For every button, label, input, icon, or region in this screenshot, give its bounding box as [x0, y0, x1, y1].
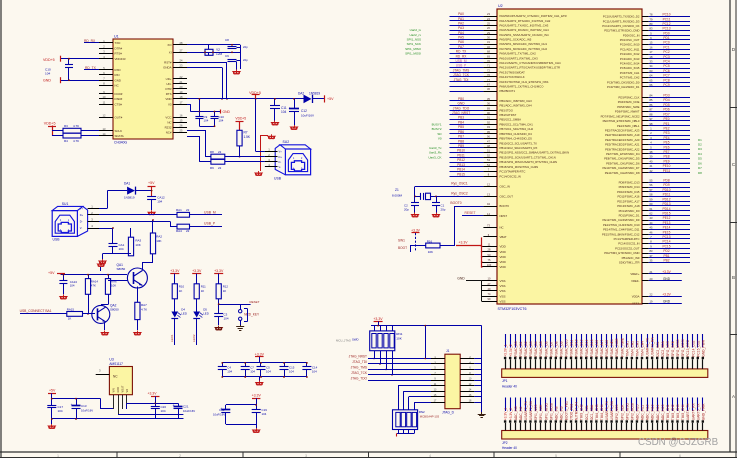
svg-text:PE2/TRACECK/FSMC_A23: PE2/TRACECK/FSMC_A23 — [605, 128, 640, 132]
svg-text:GND: GND — [663, 299, 671, 303]
svg-text:PE13/TIM1_CH3/FSMC_D10: PE13/TIM1_CH3/FSMC_D10 — [603, 223, 640, 227]
svg-text:PB7: PB7 — [458, 135, 464, 139]
svg-text:CH340G: CH340G — [114, 141, 128, 145]
svg-text:PB5/I2C1_SMBA: PB5/I2C1_SMBA — [500, 118, 522, 122]
svg-text:1N5819: 1N5819 — [309, 92, 320, 96]
svg-text:PB1/ADC_IN9/TIM3_CH4: PB1/ADC_IN9/TIM3_CH4 — [500, 104, 533, 108]
svg-text:1K: 1K — [68, 316, 72, 320]
svg-text:PE5: PE5 — [663, 141, 669, 145]
svg-text:USB_CONNECT BA1: USB_CONNECT BA1 — [20, 309, 52, 313]
svg-text:R7: R7 — [244, 131, 248, 135]
svg-text:PB3/JTDO: PB3/JTDO — [500, 108, 514, 112]
svg-text:+3.3V_2: +3.3V_2 — [509, 344, 513, 357]
svg-text:PC4: PC4 — [663, 60, 669, 64]
svg-text:PC9: PC9 — [663, 83, 669, 87]
svg-text:PA3: PA3 — [458, 26, 464, 30]
svg-text:RD_TX: RD_TX — [456, 50, 467, 54]
svg-text:PB14/SPI2_MISO/USART3_RTS/TIM1: PB14/SPI2_MISO/USART3_RTS/TIM1_CH2N — [500, 160, 558, 164]
svg-text:PB4/NJTRST: PB4/NJTRST — [500, 113, 517, 117]
svg-text:D7: D7 — [698, 166, 702, 170]
svg-text:FSMC_A17: FSMC_A17 — [600, 340, 604, 357]
svg-text:PE1: PE1 — [663, 122, 669, 126]
svg-text:NC: NC — [167, 121, 171, 125]
svg-text:DTR: DTR — [166, 87, 172, 91]
svg-text:PC1/ADC_IN11: PC1/ADC_IN11 — [620, 47, 640, 51]
svg-text:PC8/TIM3_CH3/SDIO_D0: PC8/TIM3_CH3/SDIO_D0 — [607, 80, 640, 84]
svg-text:SPI1_SCK: SPI1_SCK — [539, 404, 543, 421]
svg-text:USART3_RX: USART3_RX — [651, 337, 655, 357]
svg-text:PA15/JTDI/TIM2_CH1_ETR/SPI1_NS: PA15/JTDI/TIM2_CH1_ETR/SPI1_NSS — [500, 80, 549, 84]
svg-text:VDD: VDD — [500, 250, 507, 254]
svg-text:PD1/OSC_OUT: PD1/OSC_OUT — [620, 38, 640, 42]
svg-text:VOUT: VOUT — [122, 385, 125, 392]
svg-text:TIM3_CH2: TIM3_CH2 — [671, 404, 675, 420]
svg-text:SPI2_NSS: SPI2_NSS — [615, 404, 619, 421]
svg-text:SPI2_SCK: SPI2_SCK — [620, 404, 624, 421]
svg-text:100: 100 — [487, 263, 492, 267]
svg-text:VSS: VSS — [500, 284, 506, 288]
svg-text:R16: R16 — [427, 239, 433, 243]
svg-text:PC13_RTC: PC13_RTC — [686, 339, 690, 356]
svg-text:LED2: LED2 — [192, 334, 196, 342]
svg-text:PE9/TIM1_CH1/FSMC_D6: PE9/TIM1_CH1/FSMC_D6 — [606, 161, 640, 165]
svg-text:PE0/TIM4_ETR/FSMC_NBL0: PE0/TIM4_ETR/FSMC_NBL0 — [603, 119, 640, 123]
svg-text:SU1: SU1 — [62, 202, 69, 206]
svg-text:Uart3_Rx: Uart3_Rx — [429, 151, 442, 155]
svg-text:PB15/SPI2_MOSI/TIM1_CH3N: PB15/SPI2_MOSI/TIM1_CH3N — [500, 165, 539, 169]
svg-text:SCLK: SCLK — [115, 129, 123, 133]
svg-text:22: 22 — [186, 229, 190, 233]
svg-text:PB2: PB2 — [663, 259, 669, 263]
svg-text:PD7/FSMC_NE1/FSMC_NCE2: PD7/FSMC_NE1/FSMC_NCE2 — [601, 114, 640, 118]
svg-text:PD0: PD0 — [663, 31, 669, 35]
svg-text:USART2_TX: USART2_TX — [524, 401, 528, 421]
svg-text:FSMC_D6: FSMC_D6 — [544, 341, 548, 357]
svg-text:104: 104 — [45, 72, 50, 76]
svg-text:JP1: JP1 — [502, 379, 508, 383]
svg-text:22: 22 — [186, 208, 190, 212]
svg-text:NJTRST_P4: NJTRST_P4 — [575, 402, 579, 421]
svg-text:SWD: SWD — [352, 338, 359, 342]
svg-text:RN2: RN2 — [419, 410, 425, 414]
svg-text:PC3: PC3 — [663, 55, 669, 59]
svg-text:SPI1_SCK: SPI1_SCK — [407, 42, 421, 46]
svg-text:USART3_TX: USART3_TX — [605, 401, 609, 421]
svg-text:PE9: PE9 — [663, 159, 669, 163]
svg-text:PD14/FSMC_D0: PD14/FSMC_D0 — [619, 209, 640, 213]
svg-text:1K: 1K — [179, 289, 183, 293]
svg-text:PC12: PC12 — [663, 22, 671, 26]
svg-text:BUSY1: BUSY1 — [432, 122, 442, 126]
svg-text:UD+: UD+ — [166, 77, 172, 81]
svg-text:R4: R4 — [64, 139, 68, 143]
svg-text:FSMC_D13: FSMC_D13 — [580, 339, 584, 356]
svg-text:PB9/TIM4_CH4/SDIO_D5: PB9/TIM4_CH4/SDIO_D5 — [500, 137, 533, 141]
svg-text:FSMC_A18: FSMC_A18 — [605, 340, 609, 357]
svg-text:S8050: S8050 — [110, 308, 119, 312]
svg-text:PC0/ADC_IN10: PC0/ADC_IN10 — [620, 43, 640, 47]
svg-text:PD2/TIM3_ETR/SDIO_CMD: PD2/TIM3_ETR/SDIO_CMD — [604, 251, 639, 255]
svg-text:Uart3_CK: Uart3_CK — [428, 155, 441, 159]
svg-text:PC11/USART3_RX/SDIO_D3: PC11/USART3_RX/SDIO_D3 — [603, 19, 640, 23]
svg-text:+3.3V: +3.3V — [373, 317, 383, 321]
svg-text:RA2: RA2 — [156, 235, 162, 239]
svg-text:PD4/FSMC_NOE: PD4/FSMC_NOE — [618, 100, 640, 104]
svg-text:VDD: VDD — [165, 97, 171, 101]
svg-text:VBAT: VBAT — [500, 235, 507, 239]
svg-text:10K: 10K — [396, 336, 402, 340]
svg-text:SPI2_SCK: SPI2_SCK — [671, 340, 675, 357]
svg-text:PC2: PC2 — [663, 50, 669, 54]
svg-text:FSMC_D2: FSMC_D2 — [524, 341, 528, 357]
svg-text:USART3_RX: USART3_RX — [610, 400, 614, 420]
svg-text:PE7: PE7 — [663, 150, 669, 154]
svg-text:TIM3_CH2: TIM3_CH2 — [580, 404, 584, 420]
svg-text:RTS#: RTS# — [115, 52, 123, 56]
svg-text:PD11: PD11 — [663, 193, 671, 197]
svg-text:PC2/ADC_IN12: PC2/ADC_IN12 — [620, 52, 640, 56]
svg-text:DA2: DA2 — [298, 92, 304, 96]
svg-text:+5V: +5V — [148, 181, 155, 185]
svg-text:104: 104 — [312, 370, 317, 374]
svg-text:PB13/SPI2_SCK/USART3_CTS/TIM1_: PB13/SPI2_SCK/USART3_CTS/TIM1_CH1N — [500, 155, 556, 159]
svg-text:VSSA: VSSA — [632, 301, 640, 305]
svg-text:Rys_OSC2: Rys_OSC2 — [451, 191, 468, 195]
svg-text:C21: C21 — [183, 405, 189, 409]
svg-text:USB: USB — [274, 176, 282, 180]
svg-text:PD14: PD14 — [663, 207, 671, 211]
svg-text:SPI2_NSS: SPI2_NSS — [666, 340, 670, 357]
svg-text:VDD433: VDD433 — [115, 57, 126, 61]
svg-text:RA7: RA7 — [141, 303, 147, 307]
svg-text:22p: 22p — [243, 58, 248, 62]
svg-text:RTS: RTS — [166, 92, 172, 96]
svg-text:PA3/USART2_RX/ADC_IN3/TIM2_CH4: PA3/USART2_RX/ADC_IN3/TIM2_CH4 — [500, 28, 550, 32]
svg-text:VDD: VDD — [500, 245, 507, 249]
svg-text:R232: R232 — [165, 126, 172, 130]
svg-text:PA2: PA2 — [458, 21, 464, 25]
svg-text:TIM4_CH4: TIM4_CH4 — [600, 404, 604, 420]
svg-text:R9: R9 — [210, 166, 214, 170]
svg-text:PC0: PC0 — [663, 41, 669, 45]
svg-text:CSDN @GJZGRB: CSDN @GJZGRB — [638, 437, 719, 448]
svg-text:BOOT1_PB2: BOOT1_PB2 — [565, 401, 569, 420]
svg-text:SPI2_MISO: SPI2_MISO — [625, 402, 629, 420]
svg-text:PB0/ADC_IN8/TIM3_CH3: PB0/ADC_IN8/TIM3_CH3 — [500, 99, 533, 103]
svg-text:PB1: PB1 — [663, 254, 669, 258]
svg-text:10K: 10K — [428, 250, 433, 254]
svg-text:10uF/16V: 10uF/16V — [301, 114, 314, 118]
svg-text:104: 104 — [227, 370, 232, 374]
svg-text:JTAG_TCK: JTAG_TCK — [351, 371, 368, 375]
svg-text:LED1: LED1 — [170, 334, 174, 342]
svg-text:USB: USB — [53, 238, 61, 242]
svg-text:V-: V- — [80, 226, 83, 230]
svg-text:USB_M: USB_M — [456, 59, 467, 63]
svg-text:TIM4_CH2: TIM4_CH2 — [630, 341, 634, 357]
svg-text:GND: GND — [43, 79, 51, 83]
svg-text:+3.3V: +3.3V — [662, 293, 671, 297]
svg-text:PE11/TIM1_CH2/FSMC_D8: PE11/TIM1_CH2/FSMC_D8 — [605, 171, 640, 175]
svg-text:USB_M: USB_M — [204, 211, 216, 215]
svg-text:PB7/I2C1_SDA/TIM4_CH2: PB7/I2C1_SDA/TIM4_CH2 — [500, 127, 534, 131]
svg-text:FSMC_D0: FSMC_D0 — [514, 341, 518, 357]
svg-text:PD12/FSMC_A17: PD12/FSMC_A17 — [617, 199, 640, 203]
svg-text:PE3: PE3 — [663, 131, 669, 135]
svg-text:VDD+5: VDD+5 — [44, 122, 56, 126]
svg-text:C9: C9 — [225, 54, 229, 58]
svg-text:V-: V- — [279, 165, 282, 169]
svg-text:U1: U1 — [114, 35, 119, 39]
svg-text:104: 104 — [157, 200, 162, 204]
svg-text:1.5K: 1.5K — [244, 135, 251, 139]
svg-text:10K: 10K — [135, 243, 140, 247]
svg-text:VDDA: VDDA — [632, 295, 640, 299]
svg-text:+: + — [289, 107, 291, 111]
svg-text:TIM4_CH4: TIM4_CH4 — [641, 341, 645, 357]
svg-text:PB9: PB9 — [458, 144, 464, 148]
svg-text:Uart3_Tx: Uart3_Tx — [429, 146, 442, 150]
svg-text:GND: GND — [663, 277, 671, 281]
svg-text:C13: C13 — [81, 404, 87, 408]
svg-text:104: 104 — [119, 247, 124, 251]
svg-text:RD_RX: RD_RX — [456, 54, 468, 58]
svg-text:PB12/SPI2_NSS/I2C2_SMBA/USART3: PB12/SPI2_NSS/I2C2_SMBA/USART3_CK/TIM1_B… — [500, 151, 570, 155]
svg-text:V+: V+ — [80, 206, 84, 210]
svg-text:RA1: RA1 — [176, 208, 182, 212]
svg-text:8.000M: 8.000M — [392, 194, 403, 198]
svg-text:BOOT0: BOOT0 — [500, 204, 510, 208]
svg-text:PA14/JTCK/SWCLK: PA14/JTCK/SWCLK — [500, 75, 525, 79]
svg-text:PD15/FSMC_D1: PD15/FSMC_D1 — [619, 213, 640, 217]
svg-text:V0: V0 — [438, 136, 442, 140]
svg-text:PD10: PD10 — [663, 188, 671, 192]
svg-text:104: 104 — [289, 370, 294, 374]
svg-text:+: + — [173, 404, 175, 408]
svg-text:PD11/FSMC_A16: PD11/FSMC_A16 — [617, 195, 639, 199]
svg-text:TIM4_CH3: TIM4_CH3 — [595, 404, 599, 420]
svg-text:+: + — [71, 403, 73, 407]
svg-text:1: 1 — [57, 454, 59, 458]
svg-text:D8: D8 — [698, 171, 702, 175]
svg-text:D2: D2 — [698, 143, 702, 147]
svg-text:NC#: NC# — [166, 131, 172, 135]
svg-text:PA0/WKUP/USART2_CTS/ADC_IN0/TI: PA0/WKUP/USART2_CTS/ADC_IN0/TIM2_CH1_ETR — [500, 14, 567, 18]
svg-text:PA7: PA7 — [458, 45, 464, 49]
svg-text:FSMC_D15: FSMC_D15 — [590, 339, 594, 356]
svg-text:XI: XI — [169, 51, 172, 55]
svg-text:DSR#: DSR# — [115, 97, 123, 101]
svg-text:Z1: Z1 — [395, 188, 399, 192]
svg-text:ADC_IN0: ADC_IN0 — [514, 406, 518, 420]
svg-text:C12: C12 — [301, 109, 307, 113]
svg-text:VSS: VSS — [500, 294, 506, 298]
svg-text:JTAG_TDI: JTAG_TDI — [454, 78, 469, 82]
svg-text:A: A — [732, 394, 735, 399]
svg-text:LED: LED — [203, 312, 209, 316]
svg-text:2: 2 — [179, 454, 181, 458]
svg-text:PB10: PB10 — [457, 149, 465, 153]
svg-text:GND_PWR: GND_PWR — [701, 403, 705, 420]
svg-text:PC5: PC5 — [663, 64, 669, 68]
svg-text:TIM3_CH3: TIM3_CH3 — [676, 404, 680, 420]
svg-text:I2C2_SDA: I2C2_SDA — [661, 340, 665, 356]
svg-text:PA12/USART1_RTS/CANTX/USBDP/TI: PA12/USART1_RTS/CANTX/USBDP/TIM1_ETR — [500, 66, 560, 70]
svg-text:PC13: PC13 — [663, 27, 671, 31]
svg-text:PE13: PE13 — [663, 221, 671, 225]
svg-text:OUT#: OUT# — [115, 116, 123, 120]
svg-text:+3.3V_2: +3.3V_2 — [509, 408, 513, 421]
svg-text:PA7/SPI1_MOSI/ADC_IN7/TIM3_CH2: PA7/SPI1_MOSI/ADC_IN7/TIM3_CH2 — [500, 47, 548, 51]
svg-text:104: 104 — [219, 119, 224, 123]
svg-text:+3.3V_1: +3.3V_1 — [504, 344, 508, 357]
svg-text:USB_P: USB_P — [456, 64, 466, 68]
svg-text:JTAG_TDO: JTAG_TDO — [453, 106, 470, 110]
svg-text:JTAG_TDI: JTAG_TDI — [352, 360, 367, 364]
svg-text:JTAG_TMS: JTAG_TMS — [351, 365, 367, 369]
svg-text:SPI2_MISO: SPI2_MISO — [676, 339, 680, 357]
svg-text:PD2/TIM3_ETR/SDIO_CMD: PD2/TIM3_ETR/SDIO_CMD — [604, 29, 639, 33]
svg-text:22: 22 — [218, 150, 222, 154]
svg-text:R8: R8 — [210, 150, 214, 154]
svg-text:PD7: PD7 — [663, 112, 669, 116]
svg-text:JP2: JP2 — [502, 441, 508, 445]
svg-text:PD9: PD9 — [663, 183, 669, 187]
svg-text:PA8/USART1_CK/TIM1_CH1/MCO: PA8/USART1_CK/TIM1_CH1/MCO — [500, 84, 545, 88]
svg-text:47K: 47K — [91, 283, 96, 287]
svg-text:TIM3_CH1: TIM3_CH1 — [666, 404, 670, 420]
svg-text:PC15: PC15 — [663, 244, 671, 248]
svg-text:PB4: PB4 — [458, 120, 464, 124]
svg-text:GND: GND — [457, 102, 465, 106]
svg-text:+3.3V: +3.3V — [255, 352, 265, 356]
svg-text:VDD: VDD — [500, 260, 507, 264]
svg-text:+5V: +5V — [48, 271, 55, 275]
svg-text:4.7K: 4.7K — [73, 124, 79, 128]
svg-text:SPI1_MISO: SPI1_MISO — [544, 402, 548, 420]
svg-text:PE5/TRACED2/FSMC_A21: PE5/TRACED2/FSMC_A21 — [605, 143, 640, 147]
svg-text:5: 5 — [555, 454, 557, 458]
svg-text:DA1: DA1 — [124, 181, 130, 185]
svg-text:GND: GND — [457, 276, 465, 280]
svg-text:ADC_IN14: ADC_IN14 — [656, 404, 660, 420]
svg-text:FSMC_D9: FSMC_D9 — [559, 341, 563, 357]
svg-text:ADC_IN13: ADC_IN13 — [651, 404, 655, 420]
svg-text:4.7K: 4.7K — [141, 308, 147, 312]
svg-text:R10: R10 — [179, 285, 185, 289]
svg-text:104: 104 — [281, 110, 287, 114]
svg-text:SU2: SU2 — [283, 140, 290, 144]
svg-text:D5: D5 — [698, 157, 702, 161]
svg-text:VCC: VCC — [165, 116, 171, 120]
svg-text:FSMC_A16: FSMC_A16 — [595, 340, 599, 357]
svg-text:NRST: NRST — [500, 214, 508, 218]
svg-text:SPI2_MOSI: SPI2_MOSI — [630, 403, 634, 420]
svg-text:PD6/FSMC_NWAIT: PD6/FSMC_NWAIT — [615, 110, 640, 114]
svg-text:PC14/OSC32_IN: PC14/OSC32_IN — [500, 174, 521, 178]
svg-text:PA11/USART1_CTS/CANRX/USBDM/TI: PA11/USART1_CTS/CANRX/USBDM/TIM1_CH4 — [500, 61, 562, 65]
svg-text:PB11: PB11 — [457, 153, 465, 157]
svg-text:PE12: PE12 — [663, 216, 671, 220]
svg-text:PC7/TIM3_CH2: PC7/TIM3_CH2 — [620, 76, 640, 80]
svg-text:JTAG_TDO: JTAG_TDO — [351, 376, 368, 380]
svg-text:PC14_O32: PC14_O32 — [691, 340, 695, 356]
svg-text:PC1: PC1 — [663, 45, 669, 49]
svg-text:JTAG_NRST: JTAG_NRST — [349, 355, 367, 359]
svg-text:104: 104 — [266, 370, 271, 374]
svg-text:PD0/OSC_IN: PD0/OSC_IN — [623, 33, 640, 37]
svg-text:SPI1_NSS: SPI1_NSS — [407, 37, 421, 41]
svg-text:GND: GND — [223, 110, 231, 114]
svg-text:PE1/FSMC_NBL1: PE1/FSMC_NBL1 — [617, 124, 640, 128]
svg-text:USART2_RX: USART2_RX — [529, 400, 533, 420]
svg-text:NC: NC — [115, 84, 119, 88]
svg-text:R11: R11 — [201, 285, 206, 289]
svg-text:R3: R3 — [64, 124, 68, 128]
svg-text:JTAG_TMS: JTAG_TMS — [453, 68, 469, 72]
svg-text:DCD#: DCD# — [115, 92, 123, 96]
svg-text:PC14/OSC32_IN: PC14/OSC32_IN — [618, 242, 639, 246]
svg-text:22p: 22p — [243, 45, 248, 49]
svg-text:DTR#: DTR# — [115, 46, 123, 50]
svg-text:PD8/FSMC_D13: PD8/FSMC_D13 — [619, 181, 640, 185]
svg-text:PA9/USART1_TX/TIM1_CH2: PA9/USART1_TX/TIM1_CH2 — [500, 52, 537, 56]
svg-text:FSMC_D10: FSMC_D10 — [565, 339, 569, 356]
svg-text:SDIO/TIM1_JTR: SDIO/TIM1_JTR — [619, 261, 640, 265]
svg-text:1K: 1K — [201, 289, 205, 293]
svg-text:PD3: PD3 — [663, 94, 669, 98]
svg-text:PD13/FSMC_A18: PD13/FSMC_A18 — [617, 204, 640, 208]
svg-text:PC15/OSC32_OUT: PC15/OSC32_OUT — [615, 246, 640, 250]
svg-text:PE6/TRACED3/FSMC_A22: PE6/TRACED3/FSMC_A22 — [605, 147, 640, 151]
svg-text:TIM4_CH1: TIM4_CH1 — [625, 341, 629, 357]
svg-text:PA1: PA1 — [458, 17, 464, 21]
svg-text:PA4: PA4 — [458, 31, 464, 35]
svg-text:+3.3V: +3.3V — [170, 269, 180, 273]
svg-text:U2: U2 — [498, 4, 503, 8]
svg-text:PD10/FSMC_D15: PD10/FSMC_D15 — [617, 190, 640, 194]
svg-text:SPI2_MOSI: SPI2_MOSI — [681, 339, 685, 356]
svg-text:+5V: +5V — [49, 389, 56, 393]
svg-text:PB12: PB12 — [457, 158, 465, 162]
svg-text:PB8: PB8 — [458, 139, 464, 143]
svg-text:SPI1_MOSI: SPI1_MOSI — [405, 52, 421, 56]
svg-text:PB8/TIM4_CH3/SDIO_D4: PB8/TIM4_CH3/SDIO_D4 — [500, 132, 533, 136]
svg-text:D4: D4 — [698, 152, 702, 156]
svg-text:ADC_IN9: ADC_IN9 — [559, 406, 563, 420]
svg-text:FSMC_D8: FSMC_D8 — [554, 341, 558, 357]
svg-text:PC6/TIM3_CH1: PC6/TIM3_CH1 — [620, 71, 640, 75]
svg-text:FSMC_D4: FSMC_D4 — [534, 341, 538, 357]
svg-text:PC12/USART3_CK/SDIO_CK: PC12/USART3_CK/SDIO_CK — [602, 24, 639, 28]
svg-text:FSMC_D11: FSMC_D11 — [570, 340, 574, 357]
svg-text:PB2/BOOT1: PB2/BOOT1 — [500, 89, 516, 93]
svg-text:TIM4_CH3: TIM4_CH3 — [636, 341, 640, 357]
svg-text:Rys_OSC1: Rys_OSC1 — [451, 182, 468, 186]
svg-text:U3: U3 — [109, 358, 113, 362]
svg-text:PB15: PB15 — [457, 172, 465, 176]
svg-text:LED: LED — [181, 312, 187, 316]
svg-text:PB13: PB13 — [457, 163, 465, 167]
svg-text:PA0: PA0 — [458, 12, 464, 16]
svg-text:V+: V+ — [279, 150, 283, 154]
svg-text:PD12: PD12 — [663, 197, 671, 201]
svg-text:JTDO_PB3: JTDO_PB3 — [570, 403, 574, 420]
svg-text:PB10/I2C2_SCL/USART3_TX: PB10/I2C2_SCL/USART3_TX — [500, 141, 538, 145]
svg-text:SPI1_NSS: SPI1_NSS — [534, 404, 538, 421]
svg-text:PA4/SPI1_NSS/USART2_CK/ADC_IN4: PA4/SPI1_NSS/USART2_CK/ADC_IN4 — [500, 33, 549, 37]
svg-text:NC: NC — [113, 375, 118, 379]
